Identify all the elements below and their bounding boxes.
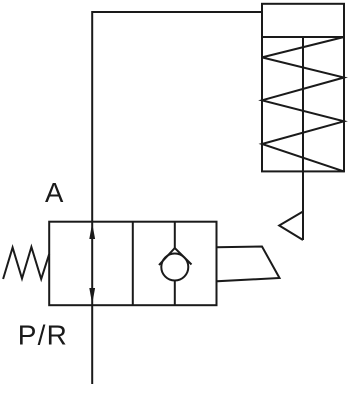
cylinder U1 body — [262, 4, 344, 172]
rod end triangle — [279, 212, 303, 241]
piston rod — [302, 37, 304, 240]
check valve bottom line — [174, 281, 176, 306]
wire — [92, 12, 262, 384]
valve spring — [3, 247, 49, 279]
exhaust port trapezoid — [217, 247, 280, 282]
up arrowhead — [89, 223, 95, 239]
cylinder piston line — [262, 36, 344, 38]
svg-text:P/R: P/R — [18, 320, 68, 351]
return spring — [262, 37, 344, 171]
svg-text:A: A — [45, 177, 64, 208]
check valve ball — [161, 254, 188, 281]
valve divider — [132, 222, 134, 306]
check valve top line — [174, 222, 176, 249]
check valve seat — [159, 248, 192, 265]
down arrowhead — [89, 288, 95, 304]
valve body — [49, 222, 216, 306]
